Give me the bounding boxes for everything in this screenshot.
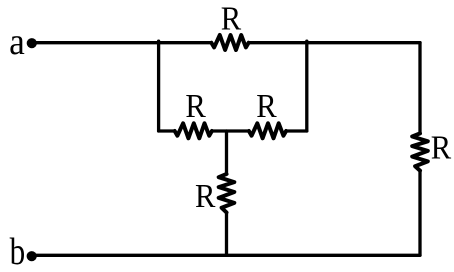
svg-text:R: R xyxy=(256,87,277,125)
wire center vertical from middle node down to resistor xyxy=(225,131,228,174)
wire right vertical lower segment xyxy=(418,171,421,256)
svg-text:a: a xyxy=(9,20,25,62)
svg-text:R: R xyxy=(221,0,242,37)
resistor R top (parallel branch) xyxy=(211,35,248,50)
svg-text:R: R xyxy=(195,177,216,215)
node b terminal dot xyxy=(27,251,37,261)
svg-text:R: R xyxy=(431,128,452,166)
wire middle horizontal between series resistors xyxy=(212,129,249,132)
wire inner-right vertical xyxy=(305,41,308,131)
wire top horizontal from top resistor to right corner xyxy=(249,41,420,44)
wire middle horizontal right stub xyxy=(286,129,307,132)
svg-text:R: R xyxy=(185,87,206,125)
wire right vertical upper segment xyxy=(418,43,421,134)
wire center vertical from resistor to bottom wire xyxy=(225,212,228,255)
resistor R center vertical xyxy=(219,174,235,212)
resistor R middle-left (series pair) xyxy=(175,123,212,138)
wire top horizontal from terminal a to top resistor xyxy=(34,41,211,44)
node a terminal dot xyxy=(27,38,37,48)
svg-text:b: b xyxy=(10,230,26,272)
wire middle horizontal left stub xyxy=(159,129,175,132)
wire inner-left vertical xyxy=(157,41,160,131)
resistor R middle-right (series pair) xyxy=(249,123,286,138)
wire bottom horizontal from terminal b to right corner xyxy=(34,254,420,257)
resistor R right vertical xyxy=(412,133,428,170)
